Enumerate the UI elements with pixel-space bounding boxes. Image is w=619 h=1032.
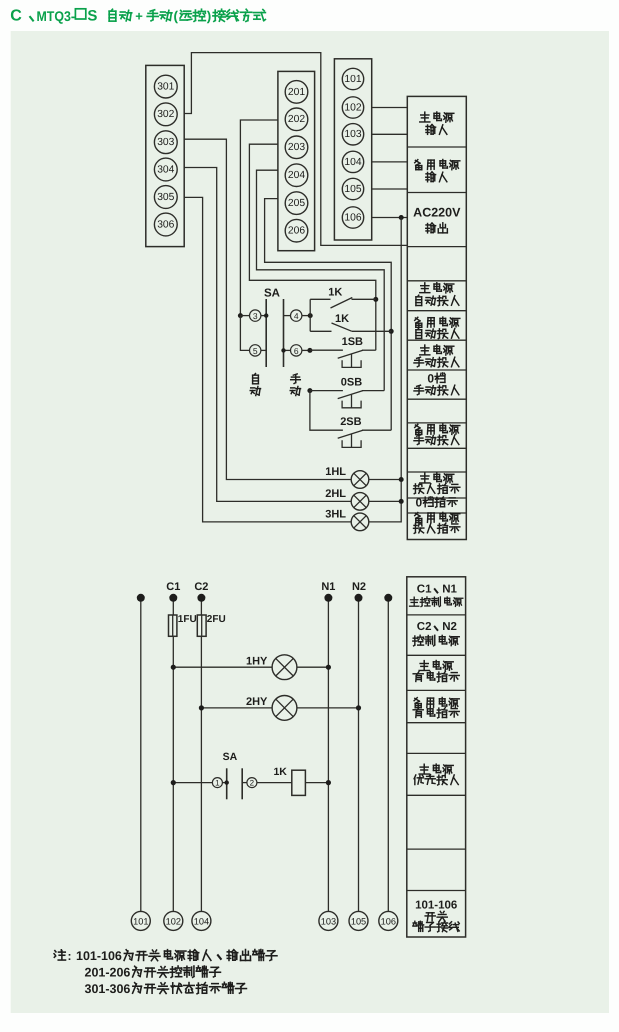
svg-text:105: 105 [344, 184, 361, 195]
wire 304 to lamp 2HL [184, 168, 351, 502]
push button 0SB [338, 391, 385, 408]
terminal 105 [342, 178, 363, 199]
node top 101 [137, 594, 145, 602]
push button 2SB [338, 430, 392, 447]
svg-text:1K: 1K [328, 286, 342, 298]
svg-text:3: 3 [253, 311, 258, 321]
junction 1K2 output [389, 329, 394, 334]
lamp 3HL [351, 513, 369, 531]
wire 105 to table [372, 188, 408, 190]
svg-text:106: 106 [344, 212, 361, 223]
svg-text:101: 101 [344, 74, 361, 85]
junction contact3 bar [264, 313, 268, 317]
svg-text:AC220V: AC220V [413, 205, 461, 219]
svg-text:204: 204 [288, 170, 305, 181]
svg-text:104: 104 [194, 916, 209, 926]
junction 2HY right [356, 705, 361, 710]
svg-text:305: 305 [157, 192, 174, 203]
wire 106 to table [372, 217, 408, 219]
SA contact 4 [284, 310, 311, 321]
svg-text:1HL: 1HL [325, 466, 346, 478]
svg-text:206: 206 [288, 226, 305, 237]
svg-text:4: 4 [294, 311, 299, 321]
svg-text:C1: C1 [417, 583, 432, 595]
wire vertical 105 [358, 598, 360, 912]
push button 1SB [338, 350, 376, 367]
relay coil 1K [292, 770, 306, 795]
svg-text:2HY: 2HY [246, 696, 268, 708]
wire 102 to table [372, 107, 408, 109]
terminal 105 bottom [349, 911, 368, 930]
terminal block 201-206 [278, 71, 315, 250]
svg-text:103: 103 [344, 129, 361, 140]
label auto [250, 373, 260, 395]
selector SA bar manual [283, 299, 285, 367]
svg-text:104: 104 [344, 157, 361, 168]
wire C1 to SA contact 1 [173, 782, 212, 784]
svg-text:N2: N2 [352, 581, 366, 593]
svg-text:1: 1 [215, 779, 220, 788]
wire 104 to table [372, 161, 408, 163]
svg-text:3HL: 3HL [325, 509, 346, 521]
junction coil N1 [326, 780, 331, 785]
svg-text:0SB: 0SB [341, 376, 362, 388]
wire vertical 104 [200, 598, 202, 912]
svg-text:306: 306 [157, 219, 174, 230]
svg-text:2FU: 2FU [207, 614, 226, 625]
svg-text:101-106: 101-106 [415, 900, 457, 912]
wire 204 to 0SB [257, 170, 385, 390]
svg-text:0: 0 [416, 496, 423, 510]
function table bottom labels [410, 583, 463, 931]
SA contact 3 [240, 310, 266, 321]
svg-text:2SB: 2SB [340, 416, 361, 428]
SA contact 1 [212, 778, 226, 788]
wire AC220V down to lamps [369, 218, 401, 522]
svg-text:1HY: 1HY [246, 655, 268, 667]
wire vertical 101 [140, 598, 142, 912]
svg-text:+: + [135, 8, 143, 23]
junction contact4 node [308, 313, 313, 318]
terminal 305 [154, 186, 177, 209]
terminal 103 bottom [319, 911, 338, 930]
svg-text:1K: 1K [273, 766, 287, 778]
junction SA row left [171, 780, 176, 785]
function table bottom [407, 577, 466, 937]
svg-text:101-106: 101-106 [76, 949, 122, 963]
svg-text:1FU: 1FU [178, 614, 197, 625]
svg-text:301-306: 301-306 [85, 982, 131, 996]
terminal 104 bottom [192, 911, 211, 930]
terminal 302 [154, 103, 177, 126]
terminal 203 [285, 136, 308, 159]
svg-text:SA: SA [264, 287, 280, 299]
svg-text:1K: 1K [335, 313, 349, 325]
junction 1HY right [326, 665, 331, 670]
selector bar bottom 1 [226, 768, 228, 799]
svg-text:(: ( [174, 8, 179, 23]
junction 0SB node [307, 388, 312, 393]
junction 2HL [399, 499, 404, 504]
junction contact6 node [307, 348, 312, 353]
terminal 202 [285, 108, 308, 131]
terminal 101 [342, 68, 363, 89]
junction SA contact 3 [238, 313, 243, 318]
svg-text:C: C [10, 8, 22, 25]
svg-text:203: 203 [288, 142, 305, 153]
function table top labels [413, 112, 461, 533]
junction 1K1 output [373, 297, 378, 302]
svg-text:N1: N1 [442, 583, 457, 595]
svg-text:5: 5 [253, 346, 258, 356]
terminal 303 [154, 131, 177, 154]
terminal block 301-306 [146, 65, 184, 246]
svg-text:102: 102 [166, 916, 181, 926]
lamp 1HL [351, 471, 369, 489]
wire contact6 to 1SB [310, 349, 343, 351]
svg-text:2HL: 2HL [325, 488, 346, 500]
terminal 103 [342, 124, 363, 145]
SA contact 2 [242, 778, 257, 788]
svg-text:101: 101 [133, 916, 148, 926]
svg-text:201-206: 201-206 [85, 966, 131, 980]
terminal 106 [342, 207, 363, 228]
terminal 204 [285, 164, 308, 187]
junction contact1 bar [225, 780, 229, 784]
lamp 2HY [272, 696, 297, 721]
selector SA bar auto [265, 299, 267, 367]
junction 1HY left [171, 665, 176, 670]
svg-text:2: 2 [250, 779, 255, 788]
SA contact 5 [250, 345, 267, 356]
terminal 304 [154, 158, 177, 181]
svg-text:C1: C1 [166, 581, 180, 593]
svg-text:106: 106 [381, 916, 396, 926]
wire 103 to table [372, 133, 408, 135]
terminal 102 [342, 97, 363, 118]
svg-text:N1: N1 [321, 581, 335, 593]
svg-text:301: 301 [157, 82, 174, 93]
svg-text:102: 102 [344, 102, 361, 113]
wire 1HL to node [369, 479, 401, 481]
terminal 206 [285, 219, 308, 242]
svg-text:202: 202 [288, 114, 305, 125]
junction 2HY left [199, 705, 204, 710]
relay contact 1K lower [310, 323, 391, 331]
wire 202 to SA contact 3 [240, 120, 278, 316]
fuse 2FU [197, 615, 206, 636]
svg-text:): ) [207, 8, 212, 23]
svg-text:1SB: 1SB [342, 336, 363, 348]
terminal block 101-106 [334, 59, 371, 240]
function table top [407, 96, 466, 539]
svg-text:6: 6 [294, 346, 299, 356]
relay contact 1K upper [310, 298, 376, 309]
node top 102 [169, 594, 177, 602]
wire coil to N1 [305, 782, 328, 784]
junction contact6 bar [281, 348, 285, 352]
svg-text:201: 201 [288, 87, 305, 98]
wire contact6 to 0SB [310, 390, 343, 392]
svg-text:0: 0 [427, 372, 434, 386]
wire 303 to lamp 1HL [184, 139, 351, 479]
terminal 101 bottom [131, 911, 150, 930]
svg-text:303: 303 [157, 137, 174, 148]
junction 106 line [399, 215, 404, 220]
node top 103 [324, 594, 332, 602]
wire 202 down to SA contact 5 [240, 316, 249, 351]
junction 1HL [399, 477, 404, 482]
terminal 201 [285, 81, 308, 104]
wire 203 to 1K-1SB node [249, 144, 375, 350]
svg-text:S: S [87, 7, 97, 24]
terminal 301 [154, 75, 177, 98]
terminal 102 bottom [164, 911, 183, 930]
wire 2HY row [201, 707, 358, 709]
wire 205 to 1K2-2SB node [265, 199, 392, 431]
terminal 205 [285, 192, 308, 215]
fuse 1FU [169, 615, 177, 636]
wire 302 loop to AC220V row [184, 53, 407, 246]
svg-text:C2: C2 [417, 621, 432, 633]
terminal 306 [154, 213, 177, 236]
node top 106 [384, 594, 392, 602]
terminal 104 [342, 151, 363, 172]
lamp 2HL [351, 493, 369, 511]
notes [54, 949, 277, 996]
svg-text:MTQ3-: MTQ3- [37, 8, 76, 24]
terminal 106 bottom [379, 911, 398, 930]
svg-text:205: 205 [288, 198, 305, 209]
svg-text:304: 304 [157, 164, 174, 175]
svg-text:302: 302 [157, 109, 174, 120]
wire vertical 103 [327, 598, 329, 912]
wire contact6 to 2SB [310, 391, 343, 431]
svg-text:SA: SA [223, 751, 238, 763]
label manual [290, 374, 300, 396]
wire 1HY row [173, 666, 328, 668]
title [10, 7, 265, 24]
wire contact4 to 1K contacts [309, 299, 311, 331]
wire contact2 to coil [257, 782, 292, 784]
svg-text:N2: N2 [442, 621, 457, 633]
node top 104 [197, 594, 205, 602]
wire 2HL to node [369, 500, 401, 502]
svg-text:103: 103 [321, 916, 336, 926]
selector bar bottom 2 [241, 768, 243, 799]
wire vertical 102 [172, 598, 174, 912]
svg-text:105: 105 [351, 916, 366, 926]
wire 305 to lamp 3HL [184, 197, 351, 522]
wire vertical 106 [387, 598, 389, 912]
svg-text:C2: C2 [194, 581, 208, 593]
SA contact 6 [284, 345, 310, 356]
node top 105 [355, 594, 363, 602]
lamp 1HY [272, 655, 297, 680]
svg-text::: : [68, 949, 72, 963]
